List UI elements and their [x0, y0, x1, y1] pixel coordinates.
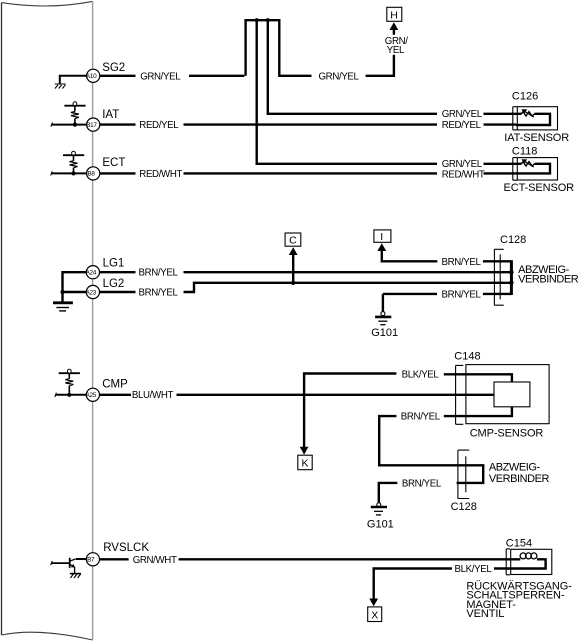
thermistor loop inside ECT sensor [516, 164, 550, 174]
svg-text:ECT-SENSOR: ECT-SENSOR [504, 182, 575, 194]
svg-text:B17: B17 [86, 122, 97, 129]
wire: B7 GRN/WHT [100, 558, 521, 560]
svg-text:C128: C128 [500, 234, 526, 246]
ground G101 (2) [377, 503, 381, 507]
svg-text:BRN/YEL: BRN/YEL [402, 478, 442, 489]
svg-text:CMP-SENSOR: CMP-SENSOR [470, 428, 544, 440]
svg-text:RED/YEL: RED/YEL [442, 120, 482, 131]
wire: A10 GRN/YEL to bus [100, 75, 245, 77]
ECU module band (left) [2, 1, 93, 640]
wire: bus drop to IAT sensor row [268, 19, 516, 114]
wire: BRN/YEL stub to G101 (2) [379, 483, 398, 503]
svg-text:VENTIL: VENTIL [466, 608, 504, 620]
svg-text:G101: G101 [371, 327, 398, 339]
arrow into H [390, 22, 399, 30]
svg-text:RED/WHT: RED/WHT [442, 170, 485, 181]
pull-up symbol (IAT input) [64, 105, 85, 107]
svg-text:GRN/WHT: GRN/WHT [133, 555, 177, 566]
svg-text:BRN/YEL: BRN/YEL [401, 412, 441, 423]
svg-text:GRN/YEL: GRN/YEL [140, 71, 181, 82]
wire: bus drop to ECT sensor row [257, 19, 516, 164]
wire: CMP internal lead [56, 394, 87, 396]
svg-text:A10: A10 [86, 73, 97, 80]
node A25 (pin CMP) [86, 388, 99, 401]
connector box K (off-page) [298, 455, 312, 470]
connector C128 (splice 2) [458, 450, 469, 498]
node A23 (pin LG2) [86, 285, 99, 298]
wire: B17 RED/YEL [100, 123, 516, 125]
IAT sensor box [517, 107, 557, 130]
svg-text:GRN/YEL: GRN/YEL [442, 109, 483, 120]
chassis ground (transistor emitter) [70, 573, 81, 575]
svg-text:A25: A25 [86, 392, 97, 399]
transistor driver (RVSLCK output) [52, 562, 70, 564]
solenoid valve box [511, 549, 552, 574]
connector box C (off-page) [285, 233, 301, 246]
earth ground (LG1/LG2) [53, 301, 73, 304]
svg-text:VERBINDER: VERBINDER [489, 473, 550, 485]
thermistor loop inside IAT sensor [516, 114, 550, 125]
wire: LG1 BRN/YEL [100, 271, 512, 273]
CMP sensor box [466, 365, 549, 424]
wire: BLK/YEL feed and drop to K [304, 374, 512, 454]
wire: B8 RED/WHT [100, 172, 516, 174]
svg-text:BLU/WHT: BLU/WHT [132, 390, 174, 401]
wire: G101 branch BRN/YEL [383, 293, 512, 295]
chassis ground (SG2 internal) [55, 84, 66, 89]
svg-text:VERBINDER: VERBINDER [518, 273, 578, 285]
splice bar [510, 260, 513, 295]
CMP sensor element [494, 382, 530, 407]
svg-text:RED/WHT: RED/WHT [139, 169, 182, 180]
svg-text:ABZWEIG-: ABZWEIG- [489, 461, 541, 473]
svg-text:GRN/YEL: GRN/YEL [319, 71, 360, 82]
svg-text:C154: C154 [506, 537, 532, 549]
resistor (IAT pull-up) [71, 112, 79, 119]
svg-text:A23: A23 [86, 289, 97, 296]
resistor (CMP pull-up) [65, 379, 73, 386]
svg-text:RVSLCK: RVSLCK [103, 542, 149, 554]
arrow into K [300, 447, 309, 455]
wire: ECT internal lead [52, 172, 87, 174]
svg-text:LG1: LG1 [103, 258, 125, 270]
svg-text:BLK/YEL: BLK/YEL [402, 370, 440, 381]
arrow into I [377, 243, 386, 251]
svg-text:G101: G101 [367, 518, 394, 530]
wire: LG2 BRN/YEL with step [100, 283, 512, 292]
svg-text:C126: C126 [512, 91, 538, 103]
svg-text:C128: C128 [451, 501, 477, 513]
wire: IAT internal lead [52, 124, 87, 126]
arrow into C [289, 247, 298, 255]
node B17 (pin IAT) [87, 118, 100, 131]
wire: SG2 internal ground lead [60, 76, 87, 84]
ECT sensor box [517, 158, 557, 180]
svg-text:RED/YEL: RED/YEL [139, 120, 179, 131]
svg-text:B7: B7 [87, 557, 95, 564]
ground G101 [381, 312, 385, 316]
node B7 (pin RVSLCK) [86, 553, 99, 566]
wire: sensor-ground bus up-and-over [246, 20, 312, 76]
svg-text:K: K [302, 458, 309, 470]
svg-text:C148: C148 [454, 351, 480, 363]
wire: drop to G101 [382, 294, 384, 312]
svg-text:A24: A24 [86, 270, 97, 277]
svg-text:GRN/YEL: GRN/YEL [442, 159, 483, 170]
svg-text:CMP: CMP [102, 379, 128, 391]
wire: A25 BLU/WHT to CMP sensor [100, 394, 495, 396]
node A24 (pin LG1) [86, 266, 99, 279]
svg-text:BRN/YEL: BRN/YEL [442, 257, 482, 268]
resistor (ECT pull-up) [70, 161, 78, 168]
connector box I (off-page) [374, 230, 391, 242]
node B8 (pin ECT) [87, 167, 100, 180]
svg-text:IAT-SENSOR: IAT-SENSOR [504, 132, 569, 144]
wire: LG1/LG2 to internal ground [63, 272, 87, 302]
svg-text:LG2: LG2 [103, 278, 125, 290]
solenoid coil [520, 553, 526, 559]
svg-text:I: I [380, 231, 383, 243]
svg-text:SG2: SG2 [102, 62, 125, 74]
svg-text:H: H [390, 9, 398, 21]
svg-text:C: C [289, 235, 297, 247]
svg-text:IAT: IAT [102, 109, 119, 121]
connector box H (off-page) [387, 7, 402, 21]
wire: sensor bottom pin BRN/YEL [379, 407, 512, 483]
svg-text:BRN/YEL: BRN/YEL [139, 268, 179, 279]
svg-text:BRN/YEL: BRN/YEL [139, 288, 179, 299]
connector box X (off-page) [368, 607, 382, 622]
arrow into X [369, 599, 378, 607]
svg-text:X: X [371, 609, 378, 621]
pull-up symbol (CMP input) [59, 372, 80, 374]
node A10 (pin SG2) [87, 69, 100, 82]
svg-text:BLK/YEL: BLK/YEL [455, 564, 493, 575]
svg-text:B8: B8 [87, 171, 95, 178]
svg-text:YEL: YEL [387, 45, 405, 56]
wire: GRN/YEL riser to H [366, 29, 394, 76]
pull-up symbol (ECT input) [63, 154, 84, 156]
svg-text:C118: C118 [512, 145, 537, 157]
svg-text:ECT: ECT [102, 157, 125, 169]
junction dots on bus bar [255, 18, 259, 22]
wire: I branch BRN/YEL [382, 250, 512, 261]
svg-text:BRN/YEL: BRN/YEL [442, 289, 482, 300]
